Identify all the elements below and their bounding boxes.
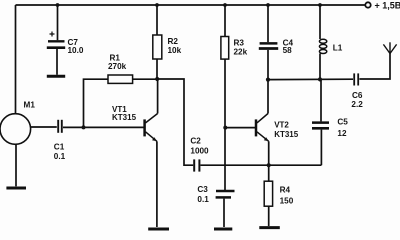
svg-text:2.2: 2.2 (351, 100, 363, 109)
resistor R4 (264, 181, 272, 206)
svg-text:12: 12 (337, 129, 347, 138)
antenna W1 (383, 42, 396, 53)
node C1/R1 junction (82, 125, 86, 129)
transistor VT1 (145, 114, 158, 142)
svg-text:C6: C6 (352, 91, 363, 100)
svg-text:10.0: 10.0 (68, 46, 84, 55)
node R3/VT2 base (223, 126, 227, 130)
svg-text:C3: C3 (197, 185, 208, 194)
node R3/top rail (223, 3, 227, 7)
resistor R2 (153, 35, 162, 59)
wire R1 left lead (84, 79, 109, 127)
svg-text:L1: L1 (333, 43, 343, 52)
capacitor C1 (58, 120, 62, 133)
svg-text:58: 58 (283, 46, 293, 55)
node C4/top rail (266, 3, 270, 7)
wire R1 right lead (133, 78, 157, 80)
microphone M1 (0, 114, 31, 145)
svg-text:C1: C1 (54, 142, 65, 151)
wire VT1 collector (157, 79, 159, 114)
terminal +1,5V (365, 2, 370, 7)
wire C5 bottom lead (320, 130, 322, 166)
wire R3 to VT2 base / C3 (224, 59, 226, 190)
node L1/top rail (318, 3, 322, 7)
capacitor C6 (354, 73, 358, 85)
svg-text:10k: 10k (168, 46, 182, 55)
ground VT1 emitter (148, 228, 169, 231)
ground C3 (214, 228, 232, 231)
wire VT2 emitter to R4 (268, 141, 270, 181)
ground M1 (6, 187, 26, 190)
wire VT2 base (225, 127, 256, 129)
resistor R3 (221, 37, 229, 60)
svg-text:M1: M1 (24, 101, 36, 110)
wire top +V rail (16, 4, 365, 6)
inductor L1 (319, 39, 326, 53)
wire C4 top lead (267, 5, 269, 42)
wire L1 top lead (319, 5, 321, 39)
svg-text:VT2: VT2 (274, 120, 289, 129)
capacitor C4 (259, 43, 278, 48)
capacitor C5 (312, 123, 329, 129)
wire VT1 collector to C2 (157, 79, 193, 165)
wire C2 to C5/emitter rail (201, 164, 322, 166)
svg-text:150: 150 (280, 196, 294, 205)
node collector/tank (266, 78, 270, 82)
node C7/top rail (56, 3, 60, 7)
wire R2 top lead (156, 5, 158, 35)
node L1/tank rail (318, 77, 322, 81)
ground C7 (47, 75, 65, 78)
svg-text:+ 1,5B: + 1,5B (375, 1, 400, 11)
svg-text:1000: 1000 (190, 146, 209, 155)
wire C5 top lead (320, 79, 322, 121)
wire C7 bottom lead (56, 49, 58, 75)
wire C1 to VT1 base (63, 126, 144, 128)
capacitor C2 (194, 159, 199, 171)
node emitter/C2 rail (267, 163, 271, 167)
capacitor C3 (216, 191, 235, 197)
wire R4 bottom lead (268, 206, 270, 226)
wire C3 bottom lead (223, 199, 225, 227)
wire left rail (rail to M1) (15, 5, 17, 114)
svg-text:R2: R2 (168, 37, 179, 46)
node R2/top rail (155, 3, 159, 7)
wire R3 top lead (224, 5, 226, 37)
wire M1 bottom lead (15, 144, 17, 186)
wire C4 to VT2 collector (267, 50, 269, 114)
svg-text:C5: C5 (337, 118, 348, 127)
svg-text:C2: C2 (190, 136, 201, 145)
wire M1 to C1 (31, 126, 57, 128)
wire L1 bottom lead (319, 54, 321, 80)
wire C7 top lead (57, 5, 59, 40)
svg-text:KT315: KT315 (112, 113, 137, 122)
svg-text:0.1: 0.1 (197, 195, 209, 204)
svg-text:R3: R3 (234, 38, 245, 47)
svg-text:22k: 22k (234, 48, 248, 57)
svg-text:0.1: 0.1 (54, 152, 66, 161)
transistor VT2 (256, 114, 269, 142)
svg-text:270k: 270k (108, 62, 127, 71)
wire C6 to antenna (359, 54, 390, 80)
ground R4 (259, 226, 280, 229)
svg-text:R4: R4 (280, 186, 291, 195)
wire VT1 emitter (156, 141, 158, 227)
wire tank rail (collector to C6) (268, 78, 353, 80)
wire R2 bottom lead (156, 59, 158, 79)
resistor R1 (108, 75, 133, 83)
node R1/R2/VT1 collector (155, 77, 159, 81)
capacitor C7 (47, 32, 65, 48)
svg-text:KT315: KT315 (274, 130, 299, 139)
